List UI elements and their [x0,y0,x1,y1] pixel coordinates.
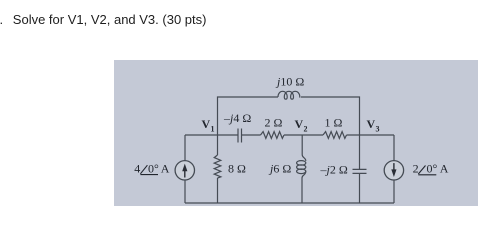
svg-text:2: 2 [413,162,419,176]
svg-text:2 Ω: 2 Ω [265,116,283,130]
svg-text:–j2 Ω: –j2 Ω [320,162,348,176]
svg-text:A: A [440,162,449,176]
svg-text:j10 Ω: j10 Ω [275,75,304,89]
svg-text:2: 2 [304,125,308,134]
svg-text:4: 4 [134,162,140,176]
svg-text:A: A [161,162,170,176]
svg-text:3: 3 [376,125,380,134]
svg-text:0°: 0° [427,162,438,176]
svg-text:0°: 0° [148,162,159,176]
svg-text:1: 1 [211,125,215,134]
svg-text:1 Ω: 1 Ω [325,116,343,130]
svg-text:V: V [367,117,376,131]
svg-text:V: V [295,117,304,131]
svg-text:8 Ω: 8 Ω [228,162,246,176]
svg-text:V: V [202,117,211,131]
svg-text:–j4 Ω: –j4 Ω [223,111,251,125]
svg-text:j6 Ω: j6 Ω [268,161,291,175]
